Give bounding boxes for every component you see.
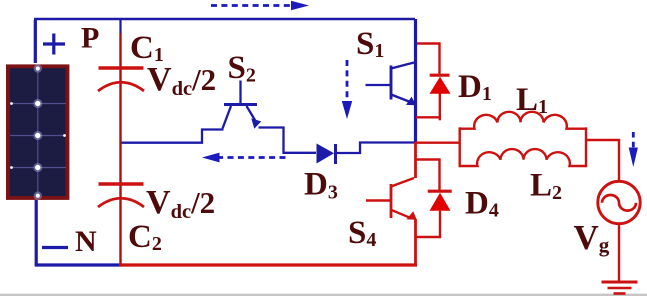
svg-text:C2: C2 xyxy=(128,219,162,255)
svg-text:D4: D4 xyxy=(465,186,499,222)
svg-text:S2: S2 xyxy=(228,50,256,87)
svg-text:S1: S1 xyxy=(356,26,384,62)
svg-text:P: P xyxy=(81,22,99,55)
svg-text:L2: L2 xyxy=(530,168,562,205)
svg-text:L1: L1 xyxy=(516,82,548,118)
svg-text:S4: S4 xyxy=(348,215,376,251)
svg-text:Vdc/2: Vdc/2 xyxy=(147,61,216,100)
svg-text:Vg: Vg xyxy=(574,218,610,257)
svg-text:N: N xyxy=(75,225,97,258)
svg-text:D3: D3 xyxy=(304,167,338,204)
svg-text:Vdc/2: Vdc/2 xyxy=(146,184,215,223)
svg-text:D1: D1 xyxy=(458,69,492,105)
